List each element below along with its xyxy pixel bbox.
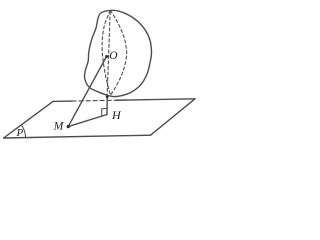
svg-text:P: P: [16, 127, 24, 139]
svg-text:H: H: [111, 108, 122, 122]
svg-text:O: O: [109, 50, 118, 62]
svg-text:M: M: [53, 120, 65, 132]
